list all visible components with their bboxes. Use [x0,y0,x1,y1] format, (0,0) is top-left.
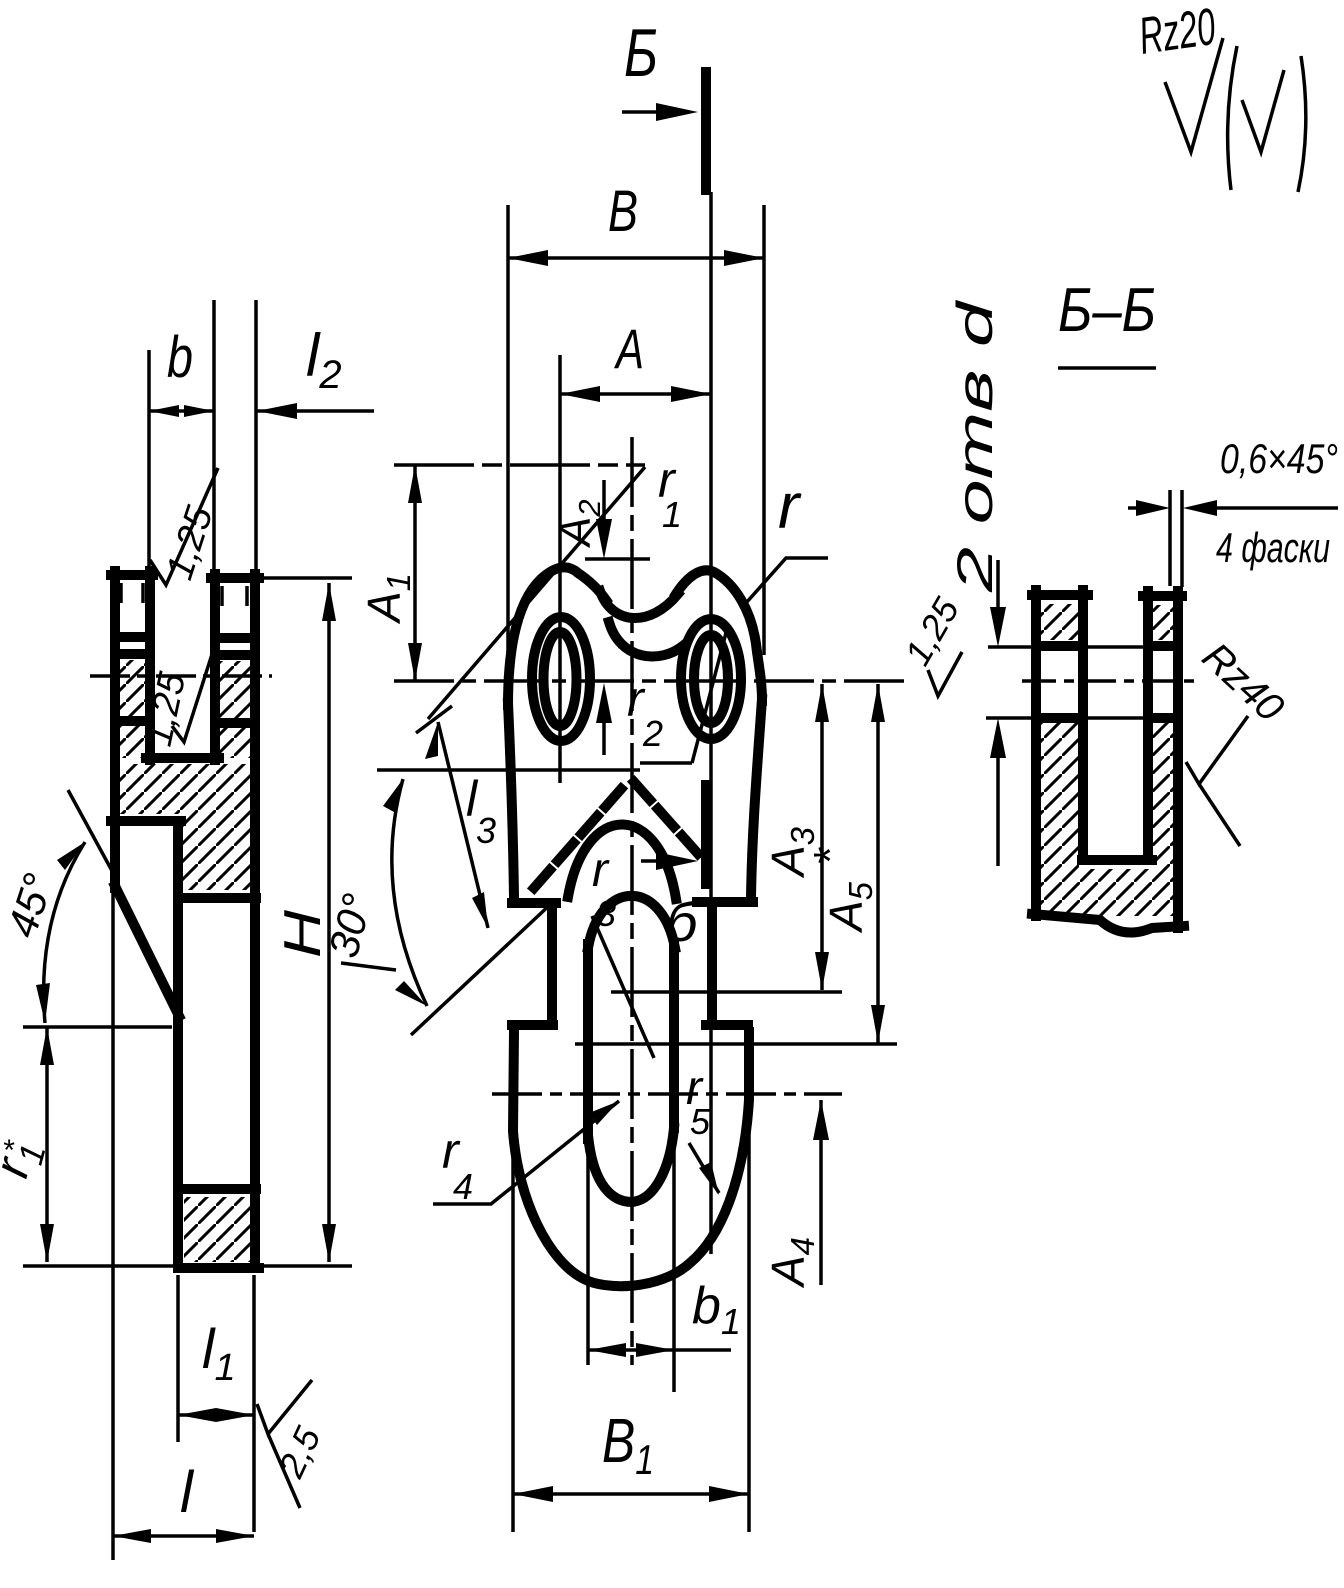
dim A4 line [819,1100,823,1285]
dim A5 line [876,684,880,1043]
dim H line [327,583,331,1262]
dim l2 arrow [257,403,297,419]
hatch left post upper [1041,604,1079,640]
30deg ref line [377,768,640,772]
r5 arrow [699,1162,719,1195]
dim l3 line [438,722,488,928]
right notch wall [707,902,717,1025]
dim B arrows [508,250,764,266]
mid bar right [178,893,256,903]
right ear top [676,570,762,701]
chamfer 45 [115,886,179,1016]
close paren [1298,56,1306,192]
A5 arrows [871,684,885,1043]
svg-text:Rz20: Rz20 [1136,0,1219,66]
slot bottom bar [1082,855,1152,865]
svg-text:2: 2 [642,713,663,754]
left notch bottom bar [512,1020,553,1030]
top bar left post [111,570,153,580]
slot right wall [210,574,220,760]
30deg second line [411,901,554,1035]
dim A3 line [820,684,824,990]
l3 arrows [425,722,488,928]
svg-text:Б: Б [624,15,658,91]
dim 2otv d line upper [996,560,1000,636]
dim B1 line [513,1492,749,1496]
hatch bottom flange [184,1197,252,1262]
chamfer ext lines [1170,490,1182,587]
r1 leader [428,467,645,719]
45 arc arrows [36,842,85,1023]
svg-text:*: * [2,1134,15,1167]
A1 top ref line [394,463,645,467]
A3 bottom ref line [611,990,842,994]
roughness check lower 1,25 [172,648,214,742]
outer arch above slot [568,824,676,899]
TOP RIGHT ROUGHNESS [1136,0,1306,192]
hatch bottom band [1041,869,1174,916]
dim H arrows [322,583,336,1262]
dim l1 line [178,1413,254,1417]
svg-text:*: * [804,846,856,866]
left edge lower body [513,1032,749,1286]
svg-text:В: В [608,179,638,244]
svg-text:b: b [167,325,193,390]
hole line lower [986,716,1150,720]
top bar right post [1143,591,1182,601]
open paren [1228,46,1237,190]
bottom edge [178,1263,259,1273]
dim l line [113,1534,254,1538]
LEFT VIEW [0,300,374,1560]
slot bottom arc [588,1128,674,1202]
svg-text:l: l [180,1460,195,1525]
dim l1 arrows [178,1408,254,1422]
r4 arrow [589,1101,619,1125]
dim l extension line [111,888,115,1560]
svg-text:Б–Б: Б–Б [1058,276,1156,345]
svg-text:4 фаски: 4 фаски [1216,524,1330,571]
right hole outer circle [681,619,741,739]
dim B1 ext lines [513,1045,749,1532]
counterbore vertical dashes [121,583,247,606]
svg-text:0,6×45°: 0,6×45° [1220,435,1338,482]
chamfer dim arrows [1128,506,1338,510]
saddle upper arc [600,591,678,618]
30deg arc arrows [383,779,427,1006]
svg-text:3: 3 [596,893,616,934]
slot bottom bar [146,753,219,763]
roughness check 1,25 [928,652,962,696]
r2 leader [692,629,727,763]
main check [1165,38,1223,152]
hidden hole dashes right post [219,638,252,723]
dim b1 line [588,1348,731,1352]
inner wall below step [173,821,183,1268]
left hole inner circle [544,632,577,726]
horizontal center line [394,679,905,683]
r5 leader [689,1143,719,1193]
dim B extension lines [508,205,764,655]
step bar [111,816,181,826]
hatch middle band [118,764,253,890]
section title underline [1058,366,1156,370]
dim A2 upper line+arrow [602,480,606,548]
section indicator bottom bar [701,785,711,884]
outline upper: left ear, saddle, right ear [508,567,606,705]
dim A1 line [413,465,417,681]
dim B line [508,256,764,260]
A4 arrow [813,1100,829,1140]
dim A1 arrows [408,465,422,681]
dim b extension lines [149,300,256,574]
left hole outer circle [532,617,590,741]
svg-text:б: б [666,890,700,953]
hatch left post [118,660,147,758]
center line [1022,679,1196,683]
Rz40 leader [1199,784,1240,846]
dim A arrows [560,386,711,402]
b1 arrows [588,1343,674,1357]
left notch top bar [512,898,556,908]
hidden edge chevron right [634,782,700,856]
hatch right post lower [1152,723,1174,869]
right inner wall [1143,591,1153,858]
r1 horizontal ref line [23,1025,172,1029]
outer left wall [110,571,120,888]
vertical line left hole [558,355,562,783]
r2 underline [640,761,692,765]
vertical axis [630,437,634,1365]
svg-text:5: 5 [690,1101,711,1142]
RIGHT VIEW [896,276,1338,933]
left outer wall [1031,590,1041,916]
hidden edge chevron left [534,780,629,888]
roughness check upper 1,25 [150,468,218,585]
section line B-B vertical [709,192,713,1254]
r3 leader [592,916,654,1058]
dim A line [560,392,711,396]
top edge extension [259,576,352,580]
bottom flange top bar [181,1184,256,1194]
svg-text:4: 4 [453,1166,473,1207]
mid ref dash line [492,1092,842,1096]
inner arch slot top [588,896,675,948]
A2 ref line [585,557,650,561]
svg-text:3: 3 [476,810,496,851]
Rz40 check [1186,716,1248,784]
section indicator top arrow [622,110,680,114]
left notch wall [547,903,557,1025]
dim l arrows [113,1529,254,1543]
right outer wall [1173,591,1183,928]
inner check [1242,70,1284,152]
roughness check 2,5 [257,1380,312,1508]
hole dashes right post [1152,646,1174,718]
arrow up [990,718,1006,758]
slot left wall [145,571,155,760]
saddle inner arc [609,622,684,657]
svg-text:2 отв d: 2 отв d [947,298,1003,593]
center line [90,674,272,678]
30deg arc [392,779,427,1006]
45 arc [44,842,85,1023]
top bar left post [1032,590,1088,600]
dim b arrows [149,405,214,417]
dim 2otv d line lower [996,729,1000,866]
bottom edge [1032,914,1184,933]
hole line upper [988,645,1145,649]
A5 bottom ref line [575,1042,897,1046]
svg-text:r: r [592,844,610,897]
hatch right post [219,661,253,758]
dim l1 extension lines [178,1275,254,1532]
section indicator bottom arrow [641,859,682,863]
right edge upper body [751,699,762,898]
section indicator top bar [701,72,711,190]
dim r1 line [45,1027,49,1262]
hatch right post upper [1152,605,1174,640]
bottom edge extensions [23,1264,352,1268]
right hole inner circle [694,635,728,723]
r leader [746,558,828,603]
hidden hole dashes left post [119,637,147,721]
hatch left post lower [1041,723,1079,869]
30 underline [341,963,396,970]
dim b line [149,409,214,413]
dim A2 lower line+arrow [602,694,606,755]
dim r1 arrows [40,1027,54,1262]
right notch top bar [697,897,753,907]
r4 leader [433,1101,619,1204]
svg-text:1: 1 [662,494,682,535]
45 chamfer extension line [68,790,117,880]
left edge upper body [508,703,514,897]
slot right wall [669,944,679,1128]
right notch bottom bar [706,1020,748,1030]
svg-text:А: А [614,317,644,380]
svg-text:r: r [778,470,802,542]
hole dashes left post [1043,646,1078,718]
B1 arrows [513,1486,749,1502]
A3 arrows [815,684,829,990]
l3 ext line [416,706,452,733]
top bar right post [211,573,259,583]
MIDDLE VIEW [319,15,905,1532]
dim b1 ext lines [588,1125,674,1392]
dim l2 line [257,409,374,413]
outer right wall [250,574,260,1268]
arrow down [990,607,1006,647]
slot left wall [583,944,593,1139]
left inner wall [1078,590,1088,858]
